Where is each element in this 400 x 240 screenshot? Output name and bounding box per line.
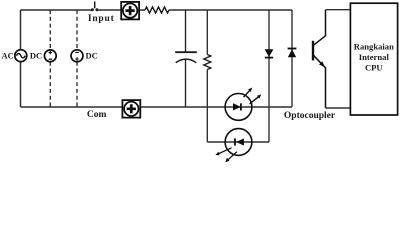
CPU box	[350, 3, 397, 115]
wire left rail lower	[20, 62, 22, 107]
connector box J2 bottom	[122, 100, 140, 118]
wire bottom rail left	[21, 106, 123, 108]
label Rangkaian Internal CPU	[354, 42, 394, 73]
wire dashed below DC source V2	[49, 62, 51, 107]
wire dashed above DC source V2	[49, 10, 51, 50]
source AC V1	[15, 50, 27, 62]
wire top rail right	[169, 9, 292, 11]
svg-text:DC: DC	[30, 51, 42, 61]
diode D1 down	[265, 10, 274, 142]
resistor R1	[145, 7, 169, 13]
svg-text:AC: AC	[2, 51, 14, 61]
transistor Q1 phototransistor	[313, 10, 326, 108]
svg-text:Optocoupler: Optocoupler	[284, 111, 336, 121]
LED LED2 bottom	[216, 129, 252, 163]
source DC V3	[71, 50, 83, 62]
wire LED loop bottom row	[207, 141, 269, 143]
wire emitter to CPU	[326, 107, 351, 109]
source DC V2	[44, 50, 56, 62]
switch S1	[91, 2, 99, 12]
wire box1 to resistor	[139, 9, 145, 11]
wire collector to CPU	[326, 9, 351, 11]
resistor R2 vertical	[204, 10, 211, 142]
capacitor C1	[175, 10, 197, 107]
svg-text:Input: Input	[88, 14, 115, 24]
wire top rail mid	[98, 9, 121, 11]
svg-text:CPU: CPU	[365, 62, 383, 72]
wire top rail left	[21, 9, 92, 11]
wire dashed below DC source V3	[76, 62, 78, 107]
diode D2 up	[288, 10, 297, 107]
connector box J1 top	[121, 2, 139, 20]
svg-text:Com: Com	[87, 110, 107, 120]
svg-text:DC: DC	[86, 51, 98, 61]
svg-text:Rangkaian: Rangkaian	[354, 42, 394, 52]
LED LED1 top	[225, 88, 261, 121]
svg-text:Internal: Internal	[359, 52, 390, 62]
wire left rail upper	[20, 10, 22, 50]
wire dashed above DC source V3	[76, 10, 78, 50]
wire bottom rail right	[141, 106, 292, 108]
